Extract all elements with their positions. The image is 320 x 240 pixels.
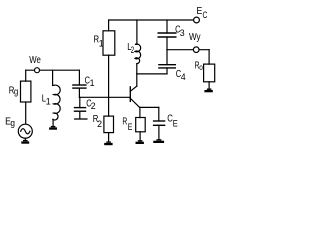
wire left column down to Rg bbox=[25, 70, 27, 81]
wire emitter horizontal bbox=[140, 106, 159, 108]
svg-text:g: g bbox=[14, 87, 18, 98]
capacitor C1 bbox=[73, 84, 86, 86]
svg-text:1: 1 bbox=[90, 78, 95, 88]
ground under RE bbox=[138, 140, 143, 141]
wire R2 top stem bbox=[108, 97, 110, 116]
resistor R1 bbox=[103, 31, 115, 55]
wire Rg to Eg bbox=[25, 102, 27, 124]
svg-text:o: o bbox=[199, 63, 203, 72]
wire L2 top stem bbox=[136, 20, 138, 44]
inductor L2 bbox=[135, 44, 141, 64]
wire C1 top stem bbox=[78, 70, 80, 85]
ground under Eg bbox=[24, 138, 26, 140]
wire We input horizontal bbox=[26, 69, 80, 71]
wire top rail bbox=[109, 19, 194, 21]
svg-text:E: E bbox=[128, 122, 133, 132]
svg-text:4: 4 bbox=[181, 72, 186, 82]
node Wy terminal bbox=[193, 47, 199, 53]
wire RE top stem bbox=[139, 107, 141, 117]
svg-text:We: We bbox=[29, 55, 41, 66]
svg-text:R: R bbox=[122, 116, 127, 127]
svg-text:C: C bbox=[203, 10, 208, 20]
svg-text:g: g bbox=[10, 118, 15, 129]
resistor R2 bbox=[104, 116, 114, 133]
svg-text:2: 2 bbox=[97, 119, 102, 129]
wire CE bottom stem bbox=[158, 125, 160, 139]
wire CE top stem bbox=[158, 107, 160, 121]
wire L2/C4 horizontal bbox=[137, 73, 167, 75]
wire C2 bottom stem bbox=[79, 111, 81, 118]
capacitor C3 bbox=[158, 32, 176, 34]
wire C4 bottom stem bbox=[166, 68, 168, 74]
wire base horizontal bbox=[79, 96, 130, 98]
node Ec terminal bbox=[194, 17, 200, 23]
wire Wy horizontal bbox=[167, 49, 209, 51]
capacitor C4 bbox=[159, 64, 175, 66]
wire R2 bottom stem bbox=[108, 133, 110, 142]
wire R1 top stem bbox=[108, 20, 110, 31]
wire C3 top stem bbox=[166, 20, 168, 33]
transistor Q1 collector diagonal bbox=[130, 86, 137, 91]
transistor Q1 emitter diagonal bbox=[130, 98, 139, 107]
source Eg bbox=[18, 124, 32, 138]
capacitor CE bbox=[154, 120, 165, 122]
wire L1 bottom stub bbox=[52, 119, 54, 126]
node We terminal bbox=[35, 68, 40, 73]
wire collector column bbox=[136, 64, 138, 86]
svg-text:3: 3 bbox=[180, 28, 185, 38]
wire C3 to Wy wire bbox=[166, 37, 168, 50]
wire Ro bottom stem bbox=[208, 82, 210, 89]
transistor Q1 base bar bbox=[129, 87, 131, 102]
wire C1 to base wire bbox=[78, 88, 80, 97]
ground under CE bbox=[156, 139, 161, 140]
wire R1 to base wire bbox=[108, 55, 110, 97]
ground under Ro bbox=[207, 89, 212, 90]
capacitor C2 bbox=[75, 107, 86, 109]
ground under L1 bbox=[51, 126, 56, 127]
resistor Ro bbox=[204, 64, 215, 82]
resistor RE bbox=[136, 118, 146, 132]
wire down to Ro bbox=[208, 50, 210, 64]
svg-text:E: E bbox=[173, 118, 178, 128]
svg-text:2: 2 bbox=[91, 101, 96, 111]
wire L1 top stem bbox=[52, 70, 54, 85]
wire C2 top stem bbox=[79, 97, 81, 107]
wire C4 top stem bbox=[166, 50, 168, 65]
ground under R2 bbox=[106, 141, 111, 142]
ground under C2 bbox=[75, 118, 87, 120]
svg-text:Wy: Wy bbox=[189, 32, 201, 43]
svg-text:2: 2 bbox=[131, 45, 134, 55]
inductor L1 bbox=[53, 85, 61, 120]
resistor Rg bbox=[21, 81, 31, 102]
svg-text:1: 1 bbox=[46, 97, 51, 107]
svg-text:1: 1 bbox=[99, 39, 104, 49]
wire RE bottom stem bbox=[139, 132, 141, 141]
